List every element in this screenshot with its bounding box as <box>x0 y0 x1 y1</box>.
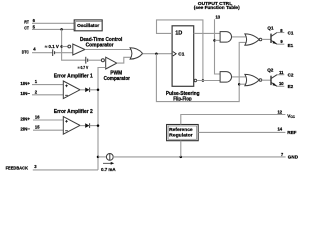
svg-text:13: 13 <box>215 15 220 20</box>
wire loop to NOR2 <box>239 83 246 85</box>
wire 1IN- <box>32 94 63 96</box>
node 1D loop junction on Qbar <box>202 79 205 82</box>
svg-text:Comparator: Comparator <box>86 42 114 48</box>
svg-text:15: 15 <box>35 125 40 130</box>
svg-text:2IN−: 2IN− <box>20 127 30 132</box>
flip-flop U2 pulse-steering <box>172 26 194 87</box>
node GND junction <box>180 156 183 159</box>
svg-text:C1: C1 <box>288 31 294 36</box>
wire NOR1 to Q1 base <box>262 38 271 40</box>
wire AND1 to NOR1 <box>232 36 246 38</box>
svg-text:C1: C1 <box>178 52 184 58</box>
and-gate AND1 <box>220 32 231 42</box>
wire 1IN+ <box>32 84 63 86</box>
svg-text:≈ 0.1 V: ≈ 0.1 V <box>45 44 59 49</box>
svg-text:Reference: Reference <box>169 127 193 132</box>
svg-text:E1: E1 <box>288 43 294 48</box>
svg-text:11: 11 <box>279 70 284 75</box>
node EA1 junction <box>97 89 100 92</box>
wire EA1 output <box>80 89 85 91</box>
svg-text:Q2: Q2 <box>267 67 274 72</box>
svg-text:4: 4 <box>33 47 36 52</box>
svg-text:+: + <box>65 85 68 90</box>
or-gate U3 comparator combiner <box>130 48 143 59</box>
op-amp error amplifier 1 <box>63 81 80 99</box>
svg-text:2: 2 <box>35 89 38 94</box>
svg-text:2IN+: 2IN+ <box>20 116 30 121</box>
svg-text:1IN−: 1IN− <box>20 91 30 96</box>
svg-text:C2: C2 <box>288 73 294 78</box>
battery 0.7V <box>85 57 87 64</box>
wire OR output to flip-flop C1 <box>143 53 173 55</box>
svg-text:−: − <box>65 94 68 99</box>
wire CT to oscillator <box>32 28 74 30</box>
clock wedge C1 <box>173 52 176 56</box>
svg-text:5: 5 <box>33 24 36 29</box>
svg-text:0.7 mA: 0.7 mA <box>101 167 116 172</box>
wire 2IN- <box>33 129 63 131</box>
wire tap to DTC comparator bubble <box>62 46 68 48</box>
svg-text:6: 6 <box>33 18 36 23</box>
svg-text:VCC: VCC <box>287 113 295 119</box>
svg-text:Comparator: Comparator <box>104 76 130 82</box>
wire feedback line <box>33 169 98 171</box>
wire NOR loop from OR junction <box>156 42 245 101</box>
wire DTC comparator output to OR gate <box>85 49 131 51</box>
wire VCC <box>181 115 286 125</box>
wire bus to current source <box>98 156 106 158</box>
wire sawtooth bus vertical <box>62 29 86 60</box>
inverter bubble DTC comparator input <box>68 45 71 48</box>
svg-text:GND: GND <box>288 154 299 159</box>
wire pin13 riser <box>215 19 221 74</box>
node pin13 junction <box>213 39 216 42</box>
battery 0.1V <box>52 49 54 56</box>
wire diode to feedback bus <box>90 125 98 127</box>
wire Qbar output to AND2 <box>197 80 221 82</box>
wire battery to PWM bubble <box>88 59 101 61</box>
node NOR2 loop junction <box>238 83 241 86</box>
svg-text:Error Amplifier 1: Error Amplifier 1 <box>54 74 93 80</box>
op-amp error amplifier 2 <box>63 117 80 135</box>
wire NOR2 to Q2 base <box>262 79 271 81</box>
oscillator box <box>74 20 102 31</box>
svg-text:12: 12 <box>277 110 282 115</box>
svg-text:16: 16 <box>35 114 40 119</box>
comparator dead-time control <box>73 44 85 55</box>
wire regulator ground riser <box>180 141 182 157</box>
current direction arrow <box>103 162 111 164</box>
node EA2 junction <box>97 124 100 127</box>
wire EA2 output <box>80 125 85 127</box>
wire 2IN+ <box>33 119 63 121</box>
svg-text:E2: E2 <box>288 84 294 89</box>
svg-text:FEEDBACK: FEEDBACK <box>6 166 29 171</box>
node CT junction <box>60 28 63 31</box>
wire diode to feedback bus <box>90 89 98 91</box>
node OR output junction <box>155 52 158 55</box>
svg-text:1IN+: 1IN+ <box>20 81 30 86</box>
nor-gate NOR2 <box>245 74 259 85</box>
wire AND2 to NOR2 <box>232 76 246 78</box>
svg-text:14: 14 <box>277 127 282 132</box>
svg-text:1: 1 <box>35 79 38 84</box>
wire PWM comparator output to OR gate <box>117 57 131 63</box>
svg-text:9: 9 <box>280 39 283 44</box>
inverter bubble Qbar output <box>194 79 196 81</box>
diode D2 <box>85 123 89 128</box>
svg-text:7: 7 <box>281 152 284 157</box>
svg-text:(see Function Table): (see Function Table) <box>194 5 241 10</box>
svg-text:Q1: Q1 <box>267 25 274 30</box>
wire Q output to AND1 <box>194 32 220 34</box>
svg-text:Oscillator: Oscillator <box>77 23 99 28</box>
reference regulator box <box>167 125 199 141</box>
and-gate AND2 <box>220 72 231 83</box>
svg-text:Error Amplifier 2: Error Amplifier 2 <box>54 109 93 115</box>
wire pin13 to AND1 <box>215 39 221 41</box>
svg-text:10: 10 <box>279 81 284 86</box>
wire RT to oscillator <box>32 22 74 24</box>
wire REF <box>198 131 285 133</box>
svg-text:CT: CT <box>24 26 29 31</box>
wire DTC pin to battery <box>32 52 52 54</box>
wire ground rail <box>113 156 285 158</box>
inverter bubble PWM comparator input <box>101 59 104 62</box>
wire battery to DTC comparator <box>55 52 73 54</box>
node DTC comparator tap junction <box>60 45 63 48</box>
wire 1D feedback loop <box>157 20 203 81</box>
svg-text:RT: RT <box>24 19 29 24</box>
svg-text:+: + <box>65 120 68 125</box>
wire PWM comparator feedback input <box>98 68 106 170</box>
nor-gate NOR1 <box>245 34 259 45</box>
svg-text:Regulator: Regulator <box>169 133 193 138</box>
node feedback bus junction <box>97 156 100 159</box>
svg-text:1D: 1D <box>175 30 182 36</box>
svg-text:−: − <box>65 130 68 135</box>
diode D1 <box>85 88 89 93</box>
svg-text:REF: REF <box>287 130 296 135</box>
svg-text:≈ 0.7 V: ≈ 0.7 V <box>78 65 89 70</box>
svg-text:DTC: DTC <box>22 49 30 54</box>
svg-text:3: 3 <box>34 164 37 169</box>
comparator PWM <box>106 57 117 69</box>
current source 0.7mA <box>106 154 113 161</box>
